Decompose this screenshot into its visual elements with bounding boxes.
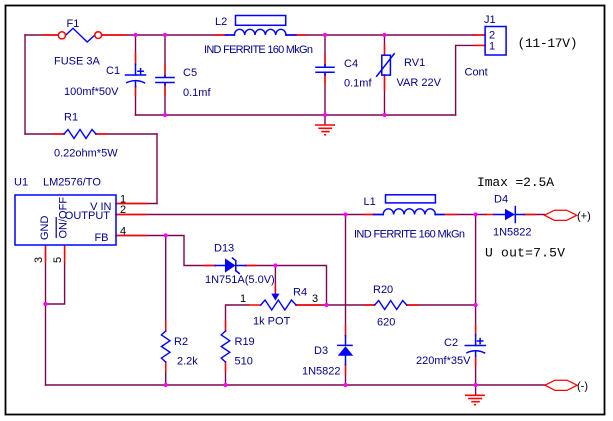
svg-text:L2: L2 <box>215 16 227 28</box>
node output minus terminal <box>545 380 577 390</box>
junction <box>382 113 386 117</box>
svg-text:0.1mf: 0.1mf <box>344 78 372 90</box>
wire <box>116 214 383 216</box>
svg-text:1: 1 <box>240 293 246 305</box>
node output plus terminal <box>545 210 577 220</box>
junction <box>323 33 327 37</box>
svg-text:OUTPUT: OUTPUT <box>65 210 111 222</box>
svg-text:D3: D3 <box>314 345 328 357</box>
svg-text:FB: FB <box>94 232 108 244</box>
svg-text:1N5822: 1N5822 <box>493 227 532 239</box>
diode D4 <box>494 207 524 223</box>
wire <box>364 214 374 216</box>
svg-text:U1: U1 <box>14 177 28 189</box>
wire <box>286 34 474 36</box>
wire <box>116 235 146 237</box>
wire <box>327 304 375 306</box>
svg-text:U out=7.5V: U out=7.5V <box>485 246 565 261</box>
wire <box>46 384 546 386</box>
potentiometer R4 <box>261 294 296 310</box>
capacitor C4 <box>316 65 334 75</box>
wire <box>475 325 477 366</box>
svg-text:VAR 22V: VAR 22V <box>397 77 442 89</box>
diode D13 zener <box>215 258 245 273</box>
svg-text:0.22ohm*5W: 0.22ohm*5W <box>54 148 118 160</box>
wire <box>46 246 65 304</box>
wire <box>166 236 215 266</box>
svg-text:620: 620 <box>377 317 395 329</box>
wire <box>45 246 47 385</box>
wire <box>384 35 386 115</box>
wire <box>136 114 456 116</box>
svg-text:2: 2 <box>120 204 126 216</box>
wire <box>102 34 126 36</box>
overline of ON <box>55 217 57 238</box>
wire <box>46 246 65 262</box>
wire <box>444 214 457 216</box>
svg-text:Cont: Cont <box>465 67 488 79</box>
wire <box>486 214 535 216</box>
junction <box>163 113 167 117</box>
wire <box>249 304 322 306</box>
svg-text:F1: F1 <box>67 18 80 30</box>
svg-text:ON/OFF: ON/OFF <box>58 197 70 239</box>
wire <box>54 133 106 135</box>
junction <box>43 302 47 306</box>
svg-text:(-): (-) <box>577 381 588 393</box>
svg-text:1N751A(5.0V): 1N751A(5.0V) <box>205 274 275 286</box>
resistor R19 <box>221 331 230 362</box>
wire <box>116 235 166 237</box>
wire <box>156 134 158 204</box>
fuse F1 <box>58 28 101 42</box>
junction <box>474 383 478 387</box>
svg-text:4: 4 <box>120 225 126 237</box>
svg-text:C5: C5 <box>183 67 197 79</box>
wire <box>324 35 326 115</box>
wire <box>135 53 137 95</box>
wire <box>24 35 26 134</box>
wire <box>116 203 157 205</box>
resistor R2 <box>161 331 170 362</box>
junction <box>133 33 137 37</box>
wire <box>116 214 146 216</box>
wire <box>246 266 327 306</box>
wire <box>475 215 477 386</box>
junction <box>382 33 386 37</box>
svg-text:510: 510 <box>235 356 253 368</box>
junction <box>323 113 327 117</box>
svg-text:(+): (+) <box>577 211 591 223</box>
inductor L2 <box>225 16 295 36</box>
ground <box>465 395 485 404</box>
wire <box>296 304 327 306</box>
IC U1 LM2576 regulator body <box>15 195 116 245</box>
svg-text:2.2k: 2.2k <box>177 356 198 368</box>
svg-text:IND FERRITE 160 MkGn: IND FERRITE 160 MkGn <box>204 44 313 56</box>
wire <box>274 284 276 294</box>
svg-text:IND FERRITE 160 MkGn: IND FERRITE 160 MkGn <box>354 229 465 241</box>
svg-text:L1: L1 <box>364 196 376 208</box>
wire <box>474 35 485 45</box>
svg-text:1: 1 <box>489 41 495 53</box>
wire <box>345 326 347 374</box>
svg-text:220mf*35V: 220mf*35V <box>416 355 471 367</box>
svg-text:3: 3 <box>312 293 318 305</box>
svg-text:LM2576/TO: LM2576/TO <box>43 177 101 189</box>
wire <box>274 266 276 294</box>
wire <box>25 34 58 36</box>
junction <box>164 383 168 387</box>
wire <box>475 385 477 395</box>
wire <box>524 214 545 216</box>
wire <box>135 35 137 115</box>
svg-text:(11-17V): (11-17V) <box>518 36 578 51</box>
svg-text:D13: D13 <box>214 243 234 255</box>
wire <box>226 305 249 385</box>
junction <box>164 233 168 237</box>
wire <box>102 34 234 36</box>
svg-text:1N5822: 1N5822 <box>302 366 341 378</box>
wire <box>43 34 58 36</box>
wire <box>164 35 166 115</box>
wire <box>164 64 166 95</box>
wire <box>456 45 485 115</box>
wire <box>384 45 386 90</box>
svg-text:100mf*50V: 100mf*50V <box>64 86 119 98</box>
svg-text:FUSE 3A: FUSE 3A <box>54 56 101 68</box>
svg-text:D4: D4 <box>494 194 508 206</box>
junction <box>273 263 277 267</box>
connector J1 <box>485 27 506 56</box>
junction <box>223 383 227 387</box>
svg-text:0.1mf: 0.1mf <box>183 87 211 99</box>
svg-text:J1: J1 <box>484 14 496 26</box>
capacitor C1 <box>126 64 146 86</box>
varistor RV1 <box>377 54 395 76</box>
junction <box>343 212 347 216</box>
wire <box>324 55 326 85</box>
svg-text:R19: R19 <box>235 336 255 348</box>
svg-text:C2: C2 <box>444 337 458 349</box>
capacitor C5 <box>156 76 174 86</box>
capacitor C2 <box>465 335 485 356</box>
junction <box>474 212 478 216</box>
junction <box>343 383 347 387</box>
svg-text:1k POT: 1k POT <box>253 316 291 328</box>
wire <box>365 304 418 306</box>
resistor R20 <box>375 301 407 310</box>
svg-text:C4: C4 <box>344 58 358 70</box>
svg-text:GND: GND <box>39 216 51 241</box>
wire <box>25 133 157 135</box>
wire <box>165 236 167 386</box>
junction <box>474 303 478 307</box>
svg-text:R1: R1 <box>64 112 78 124</box>
inductor L1 <box>374 195 445 215</box>
svg-text:C1: C1 <box>106 65 120 77</box>
wire <box>324 115 326 125</box>
wire <box>204 265 256 267</box>
junction <box>324 303 328 307</box>
svg-text:R20: R20 <box>373 284 393 296</box>
junction <box>163 33 167 37</box>
wire <box>225 321 227 372</box>
wire <box>215 34 306 36</box>
wire <box>474 34 485 36</box>
diode D3 <box>338 336 354 365</box>
wire <box>116 203 146 205</box>
svg-text:RV1: RV1 <box>404 57 425 69</box>
svg-text:R2: R2 <box>174 336 188 348</box>
svg-text:R4: R4 <box>293 287 307 299</box>
svg-text:5: 5 <box>52 257 64 263</box>
ground <box>315 125 335 135</box>
wire <box>407 304 476 306</box>
svg-text:Imax =2.5A: Imax =2.5A <box>477 175 554 190</box>
resistor R1 <box>64 130 96 139</box>
wire <box>435 214 486 216</box>
wire <box>345 215 347 386</box>
svg-text:3: 3 <box>33 257 45 263</box>
wire <box>165 321 167 372</box>
